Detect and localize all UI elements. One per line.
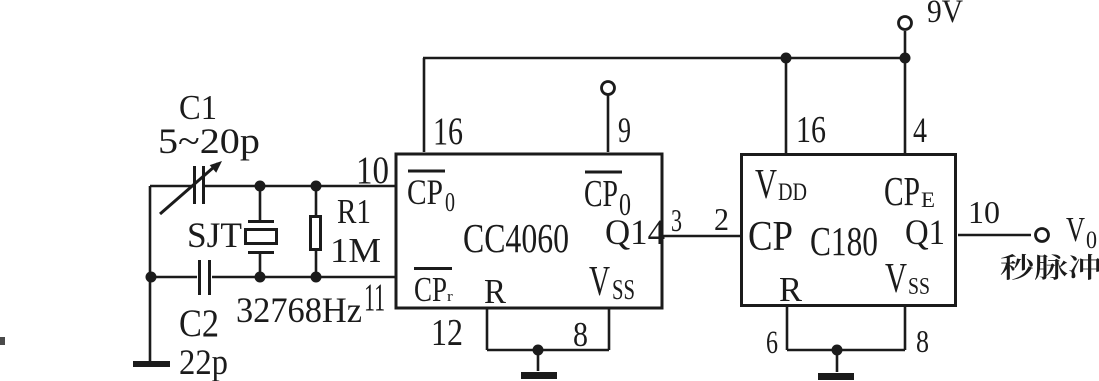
svg-text:CP: CP (414, 270, 447, 309)
svg-text:CC4060: CC4060 (463, 215, 569, 261)
svg-text:R1: R1 (337, 192, 371, 231)
svg-text:11: 11 (364, 275, 385, 318)
svg-text:SS: SS (908, 272, 930, 299)
svg-text:DD: DD (778, 177, 807, 206)
svg-text:3: 3 (671, 203, 682, 238)
svg-text:V: V (755, 160, 777, 207)
svg-text:8: 8 (573, 316, 588, 355)
svg-text:R: R (484, 273, 506, 311)
svg-text:8: 8 (916, 325, 929, 360)
svg-text:9V: 9V (927, 0, 963, 29)
svg-text:16: 16 (433, 109, 463, 153)
svg-text:0: 0 (1086, 227, 1097, 255)
svg-text:SJT: SJT (187, 215, 242, 256)
svg-text:CP: CP (884, 168, 920, 214)
svg-text:2: 2 (714, 201, 729, 237)
svg-text:4: 4 (913, 111, 927, 151)
svg-text:5~20p: 5~20p (158, 122, 260, 162)
svg-text:0: 0 (445, 188, 455, 218)
svg-text:6: 6 (766, 324, 778, 361)
svg-text:9: 9 (618, 110, 631, 150)
svg-text:Q14: Q14 (605, 211, 665, 252)
svg-text:CP: CP (407, 173, 443, 213)
svg-text:16: 16 (796, 110, 826, 151)
svg-text:V: V (589, 258, 610, 305)
svg-text:10: 10 (968, 195, 1000, 230)
svg-text:32768Hz: 32768Hz (236, 290, 362, 330)
svg-text:22p: 22p (179, 342, 228, 381)
svg-text:V: V (885, 254, 907, 301)
svg-text:SS: SS (612, 275, 635, 306)
svg-text:Q1: Q1 (905, 213, 945, 253)
svg-text:CP: CP (748, 213, 793, 260)
svg-text:CP: CP (584, 173, 618, 215)
svg-text:C2: C2 (179, 301, 219, 345)
svg-text:R: R (779, 271, 803, 309)
svg-text:r: r (447, 287, 453, 305)
svg-text:V: V (1066, 211, 1085, 249)
svg-text:12: 12 (431, 312, 463, 354)
svg-text:C180: C180 (810, 219, 878, 264)
svg-text:1M: 1M (330, 231, 381, 270)
svg-text:10: 10 (356, 148, 389, 191)
svg-text:E: E (921, 187, 935, 212)
